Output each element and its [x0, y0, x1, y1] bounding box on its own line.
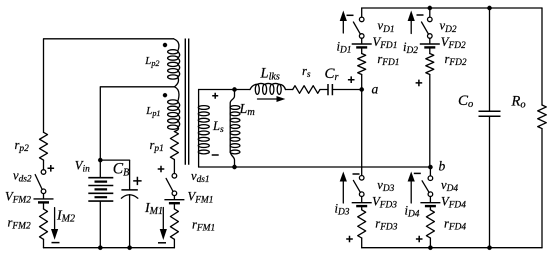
wire battery to r_FM1	[173, 205, 175, 209]
wire r_FM2 to rail	[43, 239, 45, 247]
wire rail to D2	[429, 8, 431, 17]
wire V_in top	[99, 160, 101, 178]
current arrow i_D2	[410, 21, 412, 34]
wire bottom rail output	[362, 247, 542, 249]
battery V_FD1	[352, 43, 372, 45]
battery V_FD2	[420, 43, 440, 45]
switch v_D3	[359, 176, 364, 181]
resistor r_s	[293, 86, 320, 94]
resistor R_o	[541, 8, 543, 105]
polarity + (v_ds1)	[158, 166, 165, 173]
wire switch to battery M1	[173, 196, 175, 200]
transformer core	[185, 39, 188, 165]
polarity - (v_D1)	[347, 14, 354, 16]
polarity + (C_B)	[133, 177, 141, 185]
wire secondary top	[199, 89, 250, 91]
node V_in top	[98, 158, 102, 162]
current arrow I_M2	[54, 208, 56, 229]
resistor r_p1	[170, 132, 178, 160]
polarity - (v_D4)	[414, 172, 421, 174]
node a	[360, 87, 364, 91]
wire r_p2 to switch	[43, 160, 45, 169]
wire battery to r_FD1	[361, 49, 363, 54]
wire switch to battery M2	[43, 194, 45, 199]
wire C_r to node a	[332, 89, 361, 91]
wire node a to D3	[361, 90, 363, 176]
polarity + (D2 bottom)	[416, 80, 423, 87]
battery V_FM1	[164, 199, 184, 201]
wire r_FD3 to rail	[361, 238, 363, 248]
resistor r_p2	[40, 132, 48, 160]
wire r_FD4 to rail	[429, 238, 431, 248]
switch v_D1	[359, 17, 364, 22]
polarity - (L_s)	[212, 154, 219, 156]
wire primary top loop	[44, 39, 174, 133]
node D4 bottom	[428, 246, 432, 250]
polarity - (I_M2)	[52, 242, 60, 244]
switch v_D2	[428, 17, 433, 22]
wire output top rail	[362, 7, 542, 9]
polarity + (D3 bottom)	[346, 236, 353, 243]
wire rail to D1	[361, 8, 363, 17]
wire r_FD1 to node a	[361, 75, 363, 90]
battery V_FD4	[420, 202, 440, 204]
wire node b to D4	[429, 167, 431, 176]
wire center tap	[100, 87, 174, 160]
resistor r_FM1	[170, 209, 178, 239]
switch v_ds2	[41, 170, 46, 175]
battery V_FD3	[352, 202, 372, 204]
resistor r_FD2	[426, 54, 434, 75]
wire bottom rail primary	[44, 247, 175, 249]
switch v_D4	[428, 176, 433, 181]
node C_o top	[487, 6, 491, 10]
battery V_FM2	[34, 198, 54, 200]
wire battery to r_FD2	[429, 49, 431, 54]
polarity + (L_s)	[212, 93, 218, 99]
resistor r_FM2	[40, 209, 48, 239]
current arrow (i through L_lks)	[258, 98, 278, 100]
node L_m top	[232, 87, 236, 91]
inductor L_s	[198, 90, 200, 168]
current arrow I_M1	[162, 208, 164, 230]
capacitor C_r	[328, 84, 332, 95]
wire r_FM1 to rail	[173, 239, 175, 247]
wire V_in to C_B	[100, 159, 129, 161]
wire D1 switch to battery	[361, 38, 363, 43]
polarity dot L_p1	[163, 93, 167, 97]
node C_o bottom	[487, 246, 491, 250]
polarity - (v_D3)	[353, 173, 360, 175]
capacitor C_o	[489, 8, 491, 111]
inductor L_p2	[174, 39, 180, 87]
current arrow i_D1	[342, 21, 344, 33]
wire r_s to C_r	[320, 89, 328, 91]
current arrow i_D4	[410, 182, 412, 204]
wire D2 switch to battery	[429, 38, 431, 43]
wire r_p1 to switch M1	[173, 160, 175, 174]
capacitor C_B	[129, 160, 131, 190]
svg-text:a: a	[372, 82, 379, 97]
wire D3 switch to battery	[361, 197, 363, 203]
resistor r_FD4	[426, 210, 434, 238]
inductor L_m	[230, 90, 234, 168]
resistor r_FD3	[358, 210, 366, 238]
wire battery to r_FM2	[43, 204, 45, 209]
inductor L_lks	[250, 83, 286, 89]
polarity - (I_M1)	[158, 242, 166, 244]
current arrow i_D3	[342, 182, 344, 204]
resistor r_FD1	[358, 54, 366, 75]
svg-text:b: b	[439, 159, 446, 174]
node V_in bottom	[98, 246, 102, 250]
switch v_ds1	[172, 174, 177, 179]
battery V_in	[88, 178, 113, 201]
wire D4 switch to battery	[429, 197, 431, 203]
polarity dot L_p2	[163, 43, 167, 47]
wire battery to r_FD4	[429, 208, 431, 210]
polarity - (v_D2)	[417, 14, 424, 16]
inductor L_p1	[174, 87, 179, 132]
wire secondary bottom to node b	[199, 166, 431, 168]
wire L_lks to r_s	[286, 89, 293, 91]
node D2 top	[428, 6, 432, 10]
polarity + (C_r / node a)	[348, 76, 355, 83]
wire battery to r_FD3	[361, 208, 363, 210]
node b	[428, 165, 432, 169]
polarity + (D4 bottom)	[416, 236, 423, 243]
polarity + (v_ds2)	[48, 165, 55, 172]
node C_B bottom	[127, 246, 131, 250]
wire r_FD2 to node b	[429, 75, 431, 168]
node L_m bottom	[232, 165, 236, 169]
wire V_in bottom	[99, 201, 101, 248]
